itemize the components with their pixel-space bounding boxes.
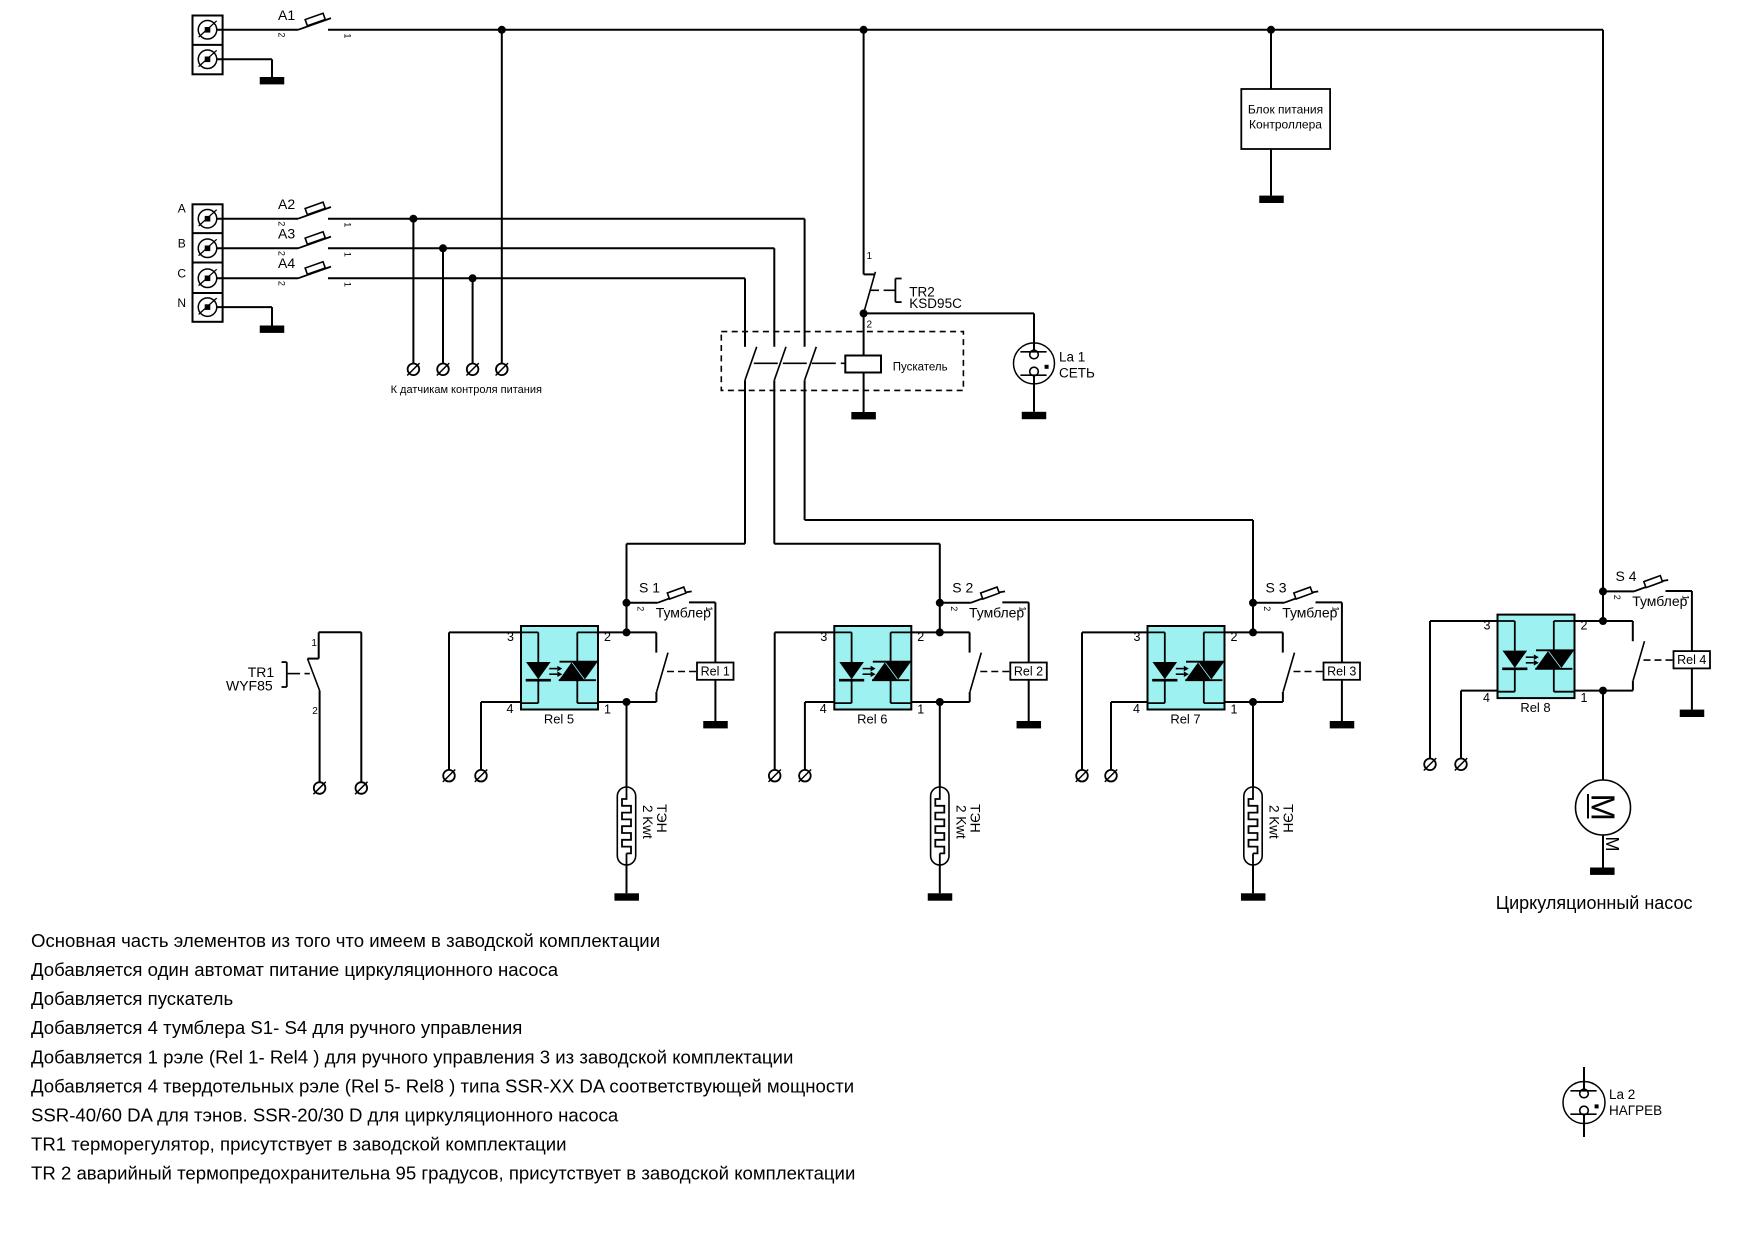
svg-text:НАГРЕВ: НАГРЕВ <box>1609 1103 1662 1118</box>
svg-text:S 3: S 3 <box>1266 579 1287 595</box>
svg-text:B: B <box>178 236 186 250</box>
svg-text:2: 2 <box>636 606 646 611</box>
svg-text:Основная часть элементов из т: Основная часть элементов из того что име… <box>31 930 660 951</box>
svg-text:S 1: S 1 <box>639 579 660 595</box>
svg-text:Rel 2: Rel 2 <box>1014 665 1043 679</box>
svg-text:Rel 5: Rel 5 <box>544 712 574 727</box>
svg-text:2 Kwt: 2 Kwt <box>640 805 655 839</box>
svg-text:1: 1 <box>604 703 611 717</box>
svg-text:4: 4 <box>506 702 513 716</box>
svg-text:A: A <box>178 202 186 216</box>
svg-text:4: 4 <box>820 702 827 716</box>
svg-text:1: 1 <box>704 606 714 611</box>
svg-text:1: 1 <box>343 33 353 38</box>
svg-text:4: 4 <box>1133 702 1140 716</box>
svg-text:ТЭН: ТЭН <box>967 804 983 833</box>
svg-text:Добавляется один автомат питан: Добавляется один автомат питание циркуля… <box>31 959 559 980</box>
svg-text:2: 2 <box>604 630 611 644</box>
svg-text:2: 2 <box>949 606 959 611</box>
svg-text:1: 1 <box>917 703 924 717</box>
svg-text:1: 1 <box>343 282 353 287</box>
svg-text:Добавляется 4 твердотельных рэ: Добавляется 4 твердотельных рэле (Rel 5-… <box>31 1075 854 1096</box>
svg-text:2: 2 <box>917 630 924 644</box>
svg-text:WYF85: WYF85 <box>226 678 273 694</box>
svg-text:S 4: S 4 <box>1616 568 1637 584</box>
svg-text:1: 1 <box>1681 595 1691 600</box>
svg-text:A1: A1 <box>278 7 295 23</box>
svg-text:C: C <box>177 266 186 280</box>
svg-text:1: 1 <box>311 638 317 649</box>
svg-text:KSD95C: KSD95C <box>909 296 962 311</box>
svg-text:1: 1 <box>1331 606 1341 611</box>
svg-text:Контроллера: Контроллера <box>1249 118 1322 132</box>
svg-text:2: 2 <box>1231 630 1238 644</box>
svg-text:2: 2 <box>1262 606 1272 611</box>
svg-text:TR 2 аварийный термопредохрани: TR 2 аварийный термопредохранительна 95 … <box>31 1163 855 1184</box>
svg-text:2: 2 <box>1612 595 1622 600</box>
svg-text:М: М <box>1585 794 1622 822</box>
svg-text:Блок питания: Блок питания <box>1248 103 1323 117</box>
svg-text:Добавляется 1 рэле (Rel 1- Rel: Добавляется 1 рэле (Rel 1- Rel4 ) для ру… <box>31 1046 793 1067</box>
svg-text:N: N <box>177 296 186 310</box>
svg-text:Циркуляционный насос: Циркуляционный насос <box>1496 893 1693 913</box>
svg-text:A2: A2 <box>278 196 295 212</box>
svg-text:TR1 терморегулятор, присутству: TR1 терморегулятор, присутствует в завод… <box>31 1134 567 1155</box>
svg-text:4: 4 <box>1483 691 1490 705</box>
svg-text:2 Kwt: 2 Kwt <box>953 805 968 839</box>
svg-text:La 1: La 1 <box>1059 350 1085 365</box>
svg-text:1: 1 <box>343 222 353 227</box>
svg-text:1: 1 <box>1017 606 1027 611</box>
svg-text:Добавляется пускатель: Добавляется пускатель <box>31 988 233 1009</box>
svg-text:2: 2 <box>312 706 318 717</box>
svg-text:S 2: S 2 <box>952 579 973 595</box>
svg-text:1: 1 <box>867 251 873 262</box>
svg-text:A4: A4 <box>278 255 295 271</box>
svg-text:Тумблер: Тумблер <box>1282 604 1337 620</box>
svg-text:2: 2 <box>277 32 287 37</box>
svg-text:2: 2 <box>1581 619 1588 633</box>
svg-text:1: 1 <box>1581 691 1588 705</box>
svg-text:ТЭН: ТЭН <box>654 804 670 833</box>
svg-text:1: 1 <box>343 252 353 257</box>
svg-text:М: М <box>1602 837 1622 852</box>
svg-text:Rel 6: Rel 6 <box>857 712 887 727</box>
svg-text:2: 2 <box>277 281 287 286</box>
svg-text:Добавляется 4 тумблера S1- S4: Добавляется 4 тумблера S1- S4 для ручног… <box>31 1017 522 1038</box>
svg-text:Пускатель: Пускатель <box>893 362 948 374</box>
svg-text:Тумблер: Тумблер <box>1632 593 1687 609</box>
svg-text:Rel 3: Rel 3 <box>1327 665 1356 679</box>
svg-text:2: 2 <box>867 320 873 331</box>
svg-text:SSR-40/60 DA для тэнов. SSR-20: SSR-40/60 DA для тэнов. SSR-20/30 D для … <box>31 1105 619 1126</box>
svg-text:К датчикам контроля питания: К датчикам контроля питания <box>391 384 542 396</box>
svg-text:2 Kwt: 2 Kwt <box>1267 805 1282 839</box>
svg-text:Тумблер: Тумблер <box>656 604 711 620</box>
svg-text:Тумблер: Тумблер <box>969 604 1024 620</box>
svg-text:La 2: La 2 <box>1609 1087 1635 1102</box>
svg-text:A3: A3 <box>278 226 295 242</box>
svg-text:ТЭН: ТЭН <box>1281 804 1297 833</box>
svg-text:Rel 7: Rel 7 <box>1170 712 1200 727</box>
svg-text:Rel 4: Rel 4 <box>1677 653 1706 667</box>
svg-text:СЕТЬ: СЕТЬ <box>1059 366 1095 381</box>
svg-text:Rel 1: Rel 1 <box>701 665 730 679</box>
svg-text:Rel 8: Rel 8 <box>1520 700 1550 715</box>
svg-text:1: 1 <box>1231 703 1238 717</box>
